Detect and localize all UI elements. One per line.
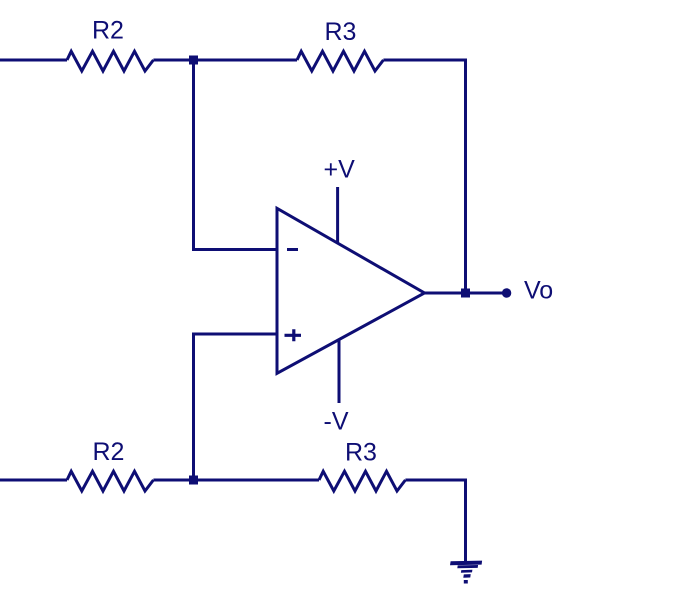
wire non-inverting input horizontal [192,333,278,336]
wire output [425,292,504,295]
svg-text:R2: R2 [92,17,124,45]
op-amp plus sign [285,329,302,341]
resistor R3 (bottom) [319,471,405,491]
wire R3 to right corner [383,59,465,62]
op-amp minus sign [287,248,298,251]
wire non-inverting input vertical [192,334,195,480]
resistor R2 (top) [67,51,153,71]
wire bottom R2 to R3 [153,479,319,482]
op-amp U1 triangle [277,208,425,373]
wire top-left input to R2 [0,59,67,62]
node output terminal dot [502,288,511,297]
wire -V supply stub [338,340,341,403]
ground symbol [450,561,482,584]
svg-text:+V: +V [324,155,356,183]
wire bottom-left input to R2 [0,479,67,482]
node junction dot (output/feedback) [461,289,470,298]
svg-text:Vo: Vo [524,277,553,305]
svg-text:R2: R2 [93,438,125,466]
svg-text:-V: -V [324,407,349,435]
wire bottom R3 to right corner [405,479,465,482]
svg-text:R3: R3 [325,18,357,46]
node junction dot (non-inverting rail) [189,476,198,485]
wire to ground [464,479,467,565]
wire inverting input vertical [192,60,195,250]
wire right vertical feedback [464,59,467,294]
resistor R2 (bottom) [67,471,153,491]
svg-text:R3: R3 [345,438,377,466]
wire inverting input horizontal [192,248,278,251]
node junction dot (inverting rail) [189,56,198,65]
resistor R3 (top, feedback) [297,51,383,71]
wire +V supply stub [336,187,339,243]
wire R2 to R3 (top rail) [153,59,297,62]
